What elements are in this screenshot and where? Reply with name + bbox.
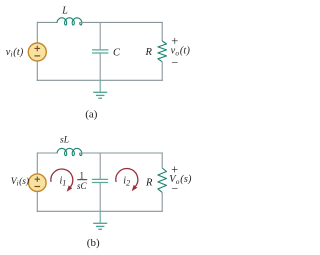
mesh current i2 arrow	[116, 169, 138, 192]
wire: circuit (b) top-left segment	[37, 152, 57, 154]
inductor L	[57, 18, 82, 25]
wire: circuit (a) top-right segment	[80, 21, 163, 23]
svg-text:(a): (a)	[85, 108, 98, 120]
wire: circuit (a) left upper segment	[36, 22, 38, 44]
wire: capacitor branch upper (a)	[99, 22, 101, 49]
wire: circuit (a) left lower segment	[36, 61, 38, 81]
svg-text:L: L	[61, 6, 68, 17]
inductor sL	[57, 148, 82, 155]
wire: circuit (b) left upper segment	[36, 152, 38, 174]
wire: circuit (b) right lower segment	[161, 192, 163, 212]
svg-text:sC: sC	[77, 181, 88, 191]
svg-text:(b): (b)	[87, 237, 100, 249]
svg-text:Vi(s): Vi(s)	[11, 176, 29, 188]
wire: capacitor branch upper (b)	[99, 153, 101, 179]
capacitor C	[92, 50, 108, 53]
wire: circuit (a) right lower segment	[161, 62, 163, 81]
ground (a)	[93, 80, 107, 98]
wire: circuit (a) bottom segment	[37, 79, 163, 81]
wire: circuit (a) right upper segment	[161, 22, 163, 41]
svg-text:1: 1	[80, 170, 85, 180]
capacitor 1/sC	[92, 179, 108, 182]
wire: circuit (a) top-left segment	[37, 21, 57, 23]
svg-text:−: −	[172, 182, 179, 196]
resistor R (b)	[158, 168, 167, 192]
svg-text:−: −	[172, 56, 179, 70]
value label 1/sC	[77, 170, 88, 191]
wire: circuit (b) left lower segment	[36, 191, 38, 212]
resistor R (a)	[158, 41, 167, 62]
wire: circuit (b) bottom segment	[37, 210, 163, 212]
svg-text:sL: sL	[60, 136, 69, 146]
voltage source v_i(t)	[28, 43, 46, 61]
svg-text:vi(t): vi(t)	[6, 47, 24, 59]
svg-text:R: R	[145, 178, 153, 189]
wire: capacitor branch lower (b)	[99, 183, 101, 211]
svg-text:C: C	[113, 47, 121, 58]
mesh current i1 arrow	[51, 169, 73, 192]
svg-text:R: R	[145, 47, 153, 58]
voltage source V_i(s)	[29, 174, 47, 192]
wire: capacitor branch lower (a)	[99, 54, 101, 81]
wire: circuit (b) top-right segment	[80, 152, 163, 154]
wire: circuit (b) right upper segment	[161, 152, 163, 168]
ground (b)	[93, 211, 107, 229]
